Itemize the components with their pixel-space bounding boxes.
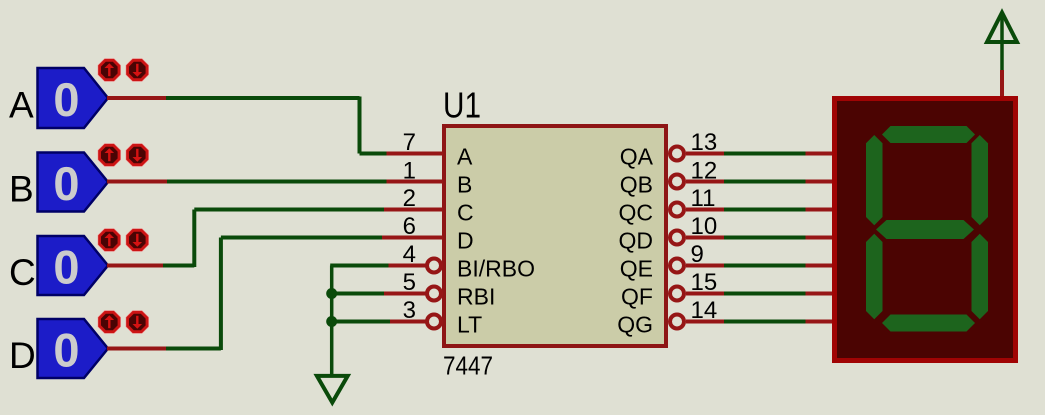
- logic input tag D: [38, 319, 109, 378]
- svg-text:QD: QD: [619, 228, 654, 254]
- segment g (middle): [876, 220, 974, 239]
- display power pin stub: [1000, 70, 1004, 96]
- svg-text:12: 12: [691, 158, 718, 185]
- display pin a stub: [806, 152, 834, 156]
- wire C red stub from tag: [107, 264, 163, 268]
- svg-text:6: 6: [403, 213, 416, 240]
- svg-text:11: 11: [691, 185, 716, 212]
- wire C green horizontal: [163, 264, 194, 268]
- svg-text:13: 13: [691, 129, 718, 156]
- logic input tag B: [38, 153, 109, 212]
- pin 9 stub: [686, 264, 724, 268]
- pin 13 QA bubble: [670, 147, 684, 161]
- svg-text:BI/RBO: BI/RBO: [457, 256, 535, 282]
- wire D vertical green: [219, 238, 223, 351]
- wire D green horizontal: [166, 347, 221, 351]
- down button D: [126, 311, 148, 333]
- svg-text:A: A: [9, 84, 34, 125]
- svg-text:RBI: RBI: [457, 284, 495, 310]
- svg-text:10: 10: [691, 213, 718, 240]
- svg-text:0: 0: [53, 73, 79, 126]
- svg-text:0: 0: [53, 157, 79, 210]
- wire LT green: [332, 320, 390, 324]
- pin 15 QF bubble: [670, 287, 684, 301]
- junction dot LT: [326, 316, 337, 327]
- svg-text:1: 1: [403, 158, 416, 185]
- pin 4 bubble: [427, 259, 441, 273]
- IC U1 7447 BCD-to-7-segment decoder body: [444, 126, 666, 346]
- svg-text:U1: U1: [443, 85, 481, 126]
- pin 11 QC bubble: [670, 203, 684, 217]
- ground: [317, 376, 348, 403]
- up button A: [98, 59, 120, 81]
- display pin b stub: [806, 180, 834, 184]
- svg-text:QG: QG: [617, 312, 653, 338]
- pin 1 stub (B): [387, 180, 444, 184]
- display pin d stub: [806, 236, 834, 240]
- svg-text:5: 5: [403, 269, 416, 296]
- svg-text:C: C: [9, 252, 36, 293]
- pin 14 stub: [686, 320, 724, 324]
- wire B red stub from tag: [107, 180, 167, 184]
- up button B: [98, 144, 120, 166]
- junction dot RBI: [326, 288, 337, 299]
- svg-text:A: A: [457, 144, 473, 170]
- svg-text:D: D: [9, 335, 36, 376]
- 7-segment display body: [835, 99, 1016, 361]
- svg-text:7: 7: [403, 129, 416, 156]
- wire QD green: [724, 236, 806, 240]
- svg-text:4: 4: [403, 241, 416, 268]
- segment a (top): [882, 126, 975, 143]
- display pin c stub: [806, 208, 834, 212]
- up button D: [98, 311, 120, 333]
- pin 9 QE bubble: [670, 259, 684, 273]
- svg-text:0: 0: [53, 241, 79, 294]
- pin 4 stub (BI/RBO): [389, 264, 429, 268]
- pin 7 stub (A): [387, 152, 444, 156]
- wire QA green: [724, 152, 806, 156]
- svg-text:14: 14: [691, 297, 718, 324]
- wire QB green: [724, 180, 806, 184]
- wire B green to pin 1: [167, 180, 387, 184]
- display pin g stub: [806, 320, 834, 324]
- up button C: [98, 229, 120, 251]
- pin 6 stub (D): [382, 236, 443, 240]
- svg-text:7447: 7447: [443, 351, 493, 381]
- pin 11 stub: [686, 208, 724, 212]
- svg-text:15: 15: [691, 269, 718, 296]
- segment e (bottom left): [866, 234, 883, 320]
- display pin f stub: [806, 292, 834, 296]
- pin 14 QG bubble: [670, 315, 684, 329]
- svg-text:QB: QB: [620, 172, 653, 198]
- display pin e stub: [806, 264, 834, 268]
- logic input tag A: [38, 68, 109, 128]
- svg-text:9: 9: [691, 241, 704, 268]
- pin 10 QD bubble: [670, 231, 684, 245]
- wire C vertical green: [192, 210, 196, 268]
- pin 15 stub: [686, 292, 724, 296]
- svg-text:B: B: [9, 169, 34, 210]
- pin 10 stub: [686, 236, 724, 240]
- svg-text:3: 3: [403, 297, 416, 324]
- wire BI/RBO green: [330, 264, 388, 268]
- svg-text:LT: LT: [457, 312, 482, 338]
- segment b (top right): [972, 135, 989, 225]
- segment d (bottom): [882, 315, 975, 332]
- pin 3 stub (LT): [390, 320, 428, 324]
- power arrow: [987, 13, 1017, 43]
- svg-text:QE: QE: [620, 256, 653, 282]
- pin 13 stub: [686, 152, 724, 156]
- wire QC green: [724, 208, 806, 212]
- wire D green to pin 6: [221, 236, 382, 240]
- ground vertical wire: [330, 266, 334, 376]
- wire QE green: [724, 264, 806, 268]
- segment c (bottom right): [972, 234, 989, 320]
- wire A horizontal green: [166, 96, 360, 100]
- wire QF green: [724, 292, 806, 296]
- svg-text:QA: QA: [620, 144, 654, 170]
- wire A vertical green: [358, 97, 362, 154]
- wire C green to pin 2: [194, 208, 384, 212]
- pin 3 bubble: [427, 315, 441, 329]
- wire QG green: [724, 320, 806, 324]
- svg-text:C: C: [457, 200, 474, 226]
- down button A: [126, 59, 148, 81]
- svg-text:B: B: [457, 172, 472, 198]
- pin 5 stub (RBI): [384, 292, 428, 296]
- wire A red stub from tag: [107, 96, 166, 100]
- pin 12 stub: [686, 180, 724, 184]
- pin 2 stub (C): [384, 208, 443, 212]
- pin 5 bubble: [427, 287, 441, 301]
- down button C: [126, 229, 148, 251]
- svg-text:0: 0: [53, 324, 79, 377]
- svg-text:QC: QC: [619, 200, 654, 226]
- svg-text:QF: QF: [621, 284, 653, 310]
- segment f (top left): [866, 135, 883, 225]
- svg-text:D: D: [457, 228, 474, 254]
- down button B: [126, 144, 148, 166]
- logic input tag C: [38, 236, 109, 295]
- wire D red stub from tag: [107, 347, 166, 351]
- svg-text:2: 2: [403, 185, 416, 212]
- wire A green to pin 7: [360, 152, 387, 156]
- power wire green: [1000, 16, 1004, 71]
- pin 12 QB bubble: [670, 175, 684, 189]
- wire RBI green: [332, 292, 384, 296]
